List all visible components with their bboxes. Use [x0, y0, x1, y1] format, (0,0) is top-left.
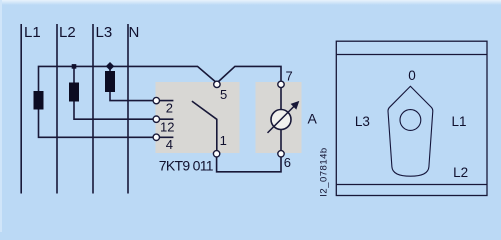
neutral line N [127, 24, 129, 194]
ammeter arrow [268, 105, 296, 133]
fuse F2 [69, 83, 79, 102]
svg-text:5: 5 [220, 87, 227, 102]
svg-text:0: 0 [408, 68, 416, 83]
svg-text:A: A [308, 111, 318, 127]
svg-text:L3: L3 [355, 114, 370, 129]
wire ammeter branch 7 to 6 [280, 84, 282, 153]
terminal 2 [153, 97, 159, 103]
wire terminal 1 to terminal 6 [217, 154, 281, 172]
svg-text:L3: L3 [96, 24, 113, 41]
svg-text:12: 12 [160, 119, 174, 134]
svg-text:7KT9 011: 7KT9 011 [159, 157, 214, 173]
svg-text:L2: L2 [453, 165, 468, 180]
fuse F3 [105, 71, 115, 92]
svg-text:7: 7 [286, 68, 293, 83]
selector knob [388, 86, 433, 176]
terminal 6 [278, 151, 284, 157]
front panel plate [336, 41, 487, 195]
switch lever contact 1 [192, 101, 217, 154]
ammeter M1 [271, 110, 291, 130]
terminal 1 [213, 151, 219, 157]
svg-text:I2_07814b: I2_07814b [319, 147, 330, 196]
wire fuse F2 bottom to terminal 12 [74, 102, 173, 120]
wire terminal 5 to corner and down to terminal 7 [217, 66, 281, 84]
junction dot fuse F2 [72, 64, 77, 69]
wire fuse F3 top lead [109, 66, 111, 71]
terminal 5 [214, 81, 220, 87]
panel bottom rule [336, 184, 487, 186]
svg-text:N: N [129, 24, 140, 41]
wire fuse F1 bottom to terminal 4 [39, 110, 174, 138]
wire bus from fuse F1 top to terminal 5 [39, 66, 217, 91]
ammeter body box [256, 82, 302, 153]
terminal 7 [278, 81, 284, 87]
wire fuse F2 top lead [73, 66, 75, 82]
svg-text:1: 1 [220, 133, 227, 148]
svg-text:L1: L1 [451, 114, 466, 129]
wire fuse F3 bottom to terminal 2 [110, 92, 173, 101]
knob circle [400, 110, 421, 131]
svg-text:6: 6 [284, 155, 291, 170]
terminal 4 [153, 134, 159, 140]
phase line L3 [92, 24, 94, 194]
panel top rule [336, 54, 487, 56]
terminal 12 [153, 116, 159, 122]
svg-text:4: 4 [166, 137, 173, 152]
phase line L2 [56, 24, 58, 194]
switch body box 7KT9 [156, 82, 240, 153]
svg-text:L2: L2 [59, 24, 76, 41]
svg-text:2: 2 [166, 101, 173, 116]
junction dot fuse F3 [106, 62, 114, 70]
phase line L1 [20, 24, 22, 194]
svg-text:L1: L1 [24, 24, 41, 41]
fuse F1 [34, 91, 44, 110]
